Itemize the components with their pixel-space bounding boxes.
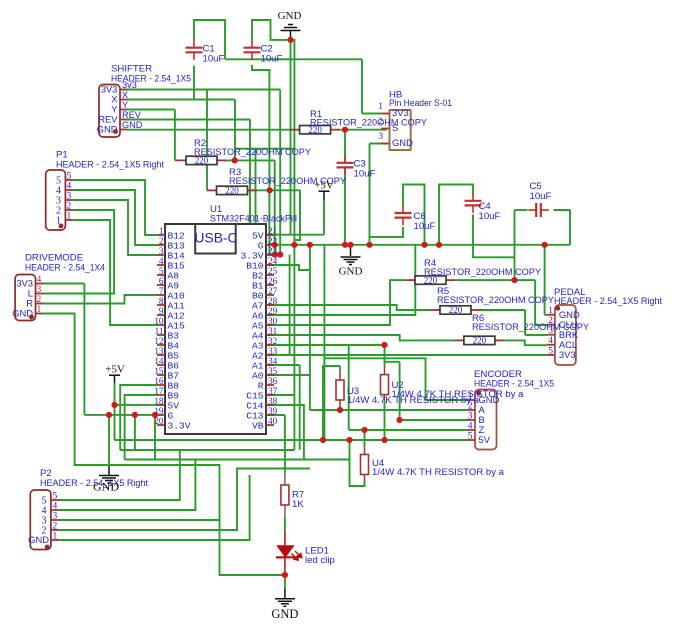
wire U2 top lead up (384, 345, 386, 365)
svg-text:25: 25 (268, 266, 278, 276)
wire G row left extension (84, 414, 157, 416)
svg-text:3V3: 3V3 (392, 107, 409, 118)
wire C3 top lead (344, 155, 346, 163)
wire P2 pin2 run (59, 469, 310, 531)
svg-text:5: 5 (548, 346, 553, 356)
wire C5 right (554, 209, 571, 211)
pedal pin 4 ACL (547, 344, 555, 346)
encoder pin 3 B (467, 419, 475, 421)
pin 5 A8 (157, 274, 165, 276)
wire C15 row (266, 394, 294, 396)
wire P1 pin1 to A15 (73, 220, 157, 325)
P2 pin 5 (51, 499, 59, 501)
wire row 450 (120, 449, 294, 451)
wire U2 column to row B (399, 362, 401, 420)
wire HB pin1 connect (362, 113, 381, 115)
svg-text:RESISTOR_220OHM COPY: RESISTOR_220OHM COPY (310, 118, 428, 129)
svg-text:4: 4 (468, 422, 473, 432)
wire C6 bottom branch (370, 227, 404, 237)
wire G to row450 (134, 415, 136, 450)
P2 pin 2 (51, 529, 59, 531)
svg-text:2: 2 (37, 295, 42, 305)
resistor U4 leads (364, 447, 366, 454)
ic U1 STM32F401-BlackPill body (165, 224, 266, 434)
svg-text:X: X (122, 90, 128, 100)
pin 30 A5 (266, 324, 274, 326)
wire X drop to R2 right (234, 100, 236, 160)
svg-text:4: 4 (159, 256, 164, 266)
svg-text:3: 3 (53, 512, 58, 522)
svg-text:7: 7 (159, 286, 164, 296)
P2 pin 4 (51, 509, 59, 511)
wire HB GND row (370, 143, 387, 145)
svg-text:35: 35 (268, 366, 278, 376)
pin 20 3.3V (157, 424, 165, 426)
wire GND mid stem (350, 245, 352, 256)
svg-text:21: 21 (268, 226, 278, 236)
wire R3 right row (253, 189, 300, 191)
wire A2 row (266, 354, 290, 356)
svg-text:26: 26 (268, 276, 278, 286)
svg-text:10uF: 10uF (354, 169, 376, 180)
wire HB pin1 drop (361, 59, 363, 113)
svg-text:37: 37 (268, 386, 278, 396)
svg-text:1: 1 (548, 306, 553, 316)
pedal pin 1 GND (547, 314, 555, 316)
wire U1 pin23 3.3V row (266, 254, 280, 256)
P1 pin 2 (65, 209, 73, 211)
wire below LED green (284, 575, 286, 589)
junction dot R4-C5 (511, 277, 517, 283)
wire C4 bottom jog (473, 215, 515, 258)
wire drivemode 3V3 (44, 283, 85, 285)
pin 1 B12 (157, 234, 165, 236)
wire GND stem top (290, 31, 292, 40)
svg-text:STM32F401-BlackPill: STM32F401-BlackPill (210, 214, 297, 225)
wire y59 run to HB pin1 column (225, 58, 362, 60)
resistor U4 body (361, 455, 369, 475)
svg-text:GND: GND (122, 120, 143, 130)
svg-text:1/4W 4.7K TH RESISTOR by a: 1/4W 4.7K TH RESISTOR by a (372, 467, 505, 478)
svg-text:10uF: 10uF (203, 54, 225, 65)
junction dot R2 right (232, 157, 238, 163)
svg-text:24: 24 (268, 256, 278, 266)
pin 28 A7 (266, 304, 274, 306)
wire net REV row (127, 119, 250, 121)
junction dot LED (282, 572, 288, 578)
wire to pedal pin3 (525, 334, 547, 336)
wire C5 left (515, 209, 528, 211)
wire R1 to HB S (341, 129, 387, 131)
pin 9 A12 (157, 314, 165, 316)
pin 17 B9 (157, 394, 165, 396)
wire drivemode GND long run to LED (44, 314, 286, 576)
wire column x255 (255, 149, 257, 255)
wire R2 right row (224, 159, 275, 161)
wire U2 top jog (385, 361, 400, 363)
svg-text:32: 32 (268, 336, 278, 346)
svg-text:19: 19 (154, 406, 164, 416)
svg-text:10uF: 10uF (530, 191, 552, 202)
svg-text:GND: GND (339, 266, 363, 278)
pin 34 A1 (266, 364, 274, 366)
encoder pin 4 Z (467, 429, 475, 431)
encoder pin 2 A (467, 409, 475, 411)
P1 pin1 marker (59, 224, 64, 229)
svg-text:3.3V: 3.3V (168, 420, 191, 431)
led LED1 (277, 546, 293, 557)
pin 14 B6 (157, 364, 165, 366)
svg-text:33: 33 (268, 346, 278, 356)
wire 3v3 drop to 3.3V (279, 90, 281, 255)
resistor U3 leads (339, 370, 341, 380)
wire A7 to R5 (266, 305, 431, 310)
connector DRIVEMODE header box (15, 275, 35, 321)
pin 40 VB (266, 424, 274, 426)
pin 35 A0 (266, 374, 274, 376)
svg-text:23: 23 (268, 246, 278, 256)
power +5V mid symbol (319, 190, 330, 192)
wire A5 to R4 (266, 280, 405, 325)
pin 31 A4 (266, 334, 274, 336)
P1 pin 3 (65, 199, 73, 201)
svg-text:4: 4 (548, 336, 553, 346)
resistor U3 body (336, 380, 344, 400)
wire U2 bottom to row D (384, 400, 386, 440)
wire row D 5V (115, 439, 467, 441)
svg-text:220: 220 (225, 186, 239, 196)
svg-text:3: 3 (67, 192, 72, 202)
wire C13 column to R7 (284, 415, 286, 473)
HB pin 3 GND (381, 143, 389, 145)
svg-text:RESISTOR_220OHM COPY: RESISTOR_220OHM COPY (472, 322, 590, 333)
wire R7 bottom gray (284, 506, 286, 517)
usb connector USB-C (195, 224, 236, 254)
svg-text:30: 30 (268, 316, 278, 326)
wire A1 row (266, 364, 300, 366)
svg-text:28: 28 (268, 296, 278, 306)
junction dots left G row (106, 412, 112, 418)
svg-text:+5V: +5V (105, 364, 125, 376)
connector ENCODER header box (475, 390, 497, 450)
wire +5V left stem (114, 375, 116, 383)
wire +5V left column to row D (114, 383, 116, 440)
pin 6 A9 (157, 284, 165, 286)
pin 13 B5 (157, 354, 165, 356)
svg-text:4: 4 (53, 502, 58, 512)
svg-text:HEADER - 2.54_1X5 Right: HEADER - 2.54_1X5 Right (56, 160, 164, 171)
P2 pin1 marker (45, 545, 50, 550)
svg-text:36: 36 (268, 376, 278, 386)
svg-text:GND: GND (278, 10, 302, 22)
wire C5 right drop to bus (569, 210, 571, 245)
wire C6 top loop (403, 185, 425, 245)
svg-text:20: 20 (154, 416, 164, 426)
pin 29 A6 (266, 314, 274, 316)
pin 32 A3 (266, 344, 274, 346)
svg-text:GND: GND (93, 480, 119, 494)
svg-text:2: 2 (67, 202, 72, 212)
wire P2 pin5 up (59, 450, 180, 500)
pin 3 B14 (157, 254, 165, 256)
svg-text:GND: GND (28, 534, 49, 545)
svg-text:USB-C: USB-C (195, 231, 238, 246)
resistor U2 leads (384, 365, 386, 375)
svg-text:5V: 5V (479, 434, 491, 445)
wire row C (349, 429, 467, 431)
drivemode pin 3 L (36, 293, 44, 295)
wire row 459 (125, 459, 350, 461)
svg-text:3V3: 3V3 (559, 349, 576, 360)
wire C2 bottom drop (252, 65, 269, 255)
resistor U2 body (381, 375, 389, 395)
svg-text:18: 18 (154, 396, 164, 406)
pedal pin 3 BRK (547, 334, 555, 336)
pin 22 G (266, 244, 274, 246)
svg-text:2: 2 (159, 236, 164, 246)
svg-text:5: 5 (53, 492, 58, 502)
wire A3 row (266, 344, 385, 346)
svg-text:RESISTOR_220OHM COPY: RESISTOR_220OHM COPY (437, 295, 555, 306)
pin 27 B0 (266, 294, 274, 296)
P2 pin 3 (51, 519, 59, 521)
wire A6 column up (266, 245, 415, 315)
HB pin 2 S (381, 128, 389, 130)
wire U1 pin21 5V row (266, 234, 324, 236)
svg-text:38: 38 (268, 396, 278, 406)
encoder pin 1 GND (467, 399, 475, 401)
wire 3V3 row to pedal pin5 (290, 354, 547, 356)
junction dot R3 right (267, 187, 273, 193)
svg-text:2: 2 (53, 522, 58, 532)
svg-text:5: 5 (159, 266, 164, 276)
wire to pedal pin2 (535, 324, 547, 326)
wire net Y row (127, 109, 175, 111)
wire column bus to encoder A row (309, 245, 311, 410)
svg-text:3: 3 (37, 285, 42, 295)
wire B10 jog (266, 265, 310, 270)
wire R4 drop to pedal pin2 (534, 280, 536, 325)
wire C5 left drop to R4 (514, 210, 516, 280)
svg-text:220: 220 (449, 305, 463, 315)
wire P1 pin2 to drivemode L (44, 210, 115, 294)
capacitor C5 (528, 203, 549, 217)
shifter pin GND (120, 129, 127, 131)
led LED1 arrows (292, 551, 302, 560)
pin 8 A11 (157, 304, 165, 306)
svg-text:10uF: 10uF (479, 211, 501, 222)
svg-text:6: 6 (159, 276, 164, 286)
pin 12 B4 (157, 344, 165, 346)
svg-text:1: 1 (37, 305, 42, 315)
resistor R2 220 (177, 156, 227, 166)
wire GND node drop A (290, 40, 292, 235)
wire U3 bottom join (339, 409, 341, 410)
wire P2 pin4 up (59, 460, 195, 511)
svg-text:4: 4 (37, 275, 42, 285)
svg-text:3: 3 (468, 412, 473, 422)
wire P1 pin4 to B13 (73, 190, 157, 245)
wire branch y149 (235, 148, 294, 150)
wire C2 top to GND node (252, 20, 296, 40)
wire row A (310, 409, 467, 411)
wire REV drop (249, 120, 251, 255)
svg-text:1: 1 (53, 532, 58, 542)
pin 15 B7 (157, 374, 165, 376)
svg-text:HEADER - 2.54_1X4: HEADER - 2.54_1X4 (25, 263, 106, 274)
wire R5 right (478, 309, 525, 311)
P1 pin 5 (65, 179, 73, 181)
svg-text:4: 4 (67, 182, 72, 192)
encoder pin1 marker (476, 391, 481, 396)
wire B8 to row 450 (120, 385, 157, 450)
P1 pin 4 (65, 189, 73, 191)
svg-text:VB: VB (252, 420, 264, 431)
wire C3 bottom to bus (344, 175, 346, 245)
wire column to row C (348, 345, 350, 430)
wire net 3v3 row (123, 89, 280, 91)
connector SHIFTER header box (99, 85, 120, 138)
wire R5 drop (524, 310, 526, 335)
svg-text:1: 1 (378, 102, 383, 112)
wire A0 row (266, 374, 310, 376)
resistor R1 220 (290, 125, 340, 135)
pin 37 C15 (266, 394, 274, 396)
svg-text:5: 5 (468, 432, 473, 442)
wire R6 to pedal pin4 (503, 340, 547, 345)
wire drivemode 3V3 drop (83, 284, 85, 415)
svg-text:1: 1 (67, 212, 72, 222)
wire encoder GND feed (324, 358, 466, 400)
svg-text:27: 27 (268, 286, 278, 296)
pin 23 3.3V (266, 254, 274, 256)
svg-text:40: 40 (268, 416, 278, 426)
resistor R7 body (281, 485, 289, 505)
wire R2 right drop (274, 160, 276, 254)
wire C1 top loop (194, 20, 225, 59)
wire P1 pin3 to B14 (73, 200, 157, 255)
drivemode pin 2 R (36, 303, 44, 305)
wire C3 bottom lead (344, 167, 346, 175)
pin 25 B2 (266, 274, 274, 276)
svg-text:31: 31 (268, 326, 278, 336)
wire C1 bottom drop (193, 66, 195, 100)
junction dot R1 node (342, 127, 348, 133)
svg-text:39: 39 (268, 406, 278, 416)
wire Y drop to R2 left (174, 110, 176, 161)
svg-text:17: 17 (154, 386, 164, 396)
drivemode pin 4 3V3 (36, 283, 44, 285)
shifter pin Y (120, 109, 127, 111)
wire U3 top loop to row D (323, 366, 340, 440)
pin 2 B13 (157, 244, 165, 246)
pin 33 A2 (266, 354, 274, 356)
svg-text:1/4W 4.7K TH RESISTOR by a: 1/4W 4.7K TH RESISTOR by a (392, 389, 525, 400)
svg-text:220: 220 (473, 336, 487, 346)
svg-text:HEADER - 2.54_1X5 Right: HEADER - 2.54_1X5 Right (554, 296, 662, 307)
wire LED anode (284, 531, 286, 546)
wire A1 column down (299, 365, 301, 450)
resistor R3 220 (207, 186, 257, 196)
resistor R4 220 (406, 275, 456, 285)
svg-text:34: 34 (268, 356, 278, 366)
wire P2 pin3 join (59, 519, 220, 521)
wire Y to R2 (175, 159, 177, 161)
pin 21 5V (266, 234, 274, 236)
svg-text:29: 29 (268, 306, 278, 316)
wire net GND row to R1 (127, 129, 290, 131)
svg-text:15: 15 (154, 366, 164, 376)
drivemode pin 1 GND (36, 313, 44, 315)
wire U4 bottom loop (350, 440, 365, 486)
pin 39 C13 (266, 414, 274, 416)
wire U3 top short (339, 366, 341, 370)
pedal pin 5 3V3 (547, 354, 555, 356)
resistor R7 leads (284, 473, 286, 485)
pin 19 G (157, 414, 165, 416)
capacitor C1 (186, 40, 203, 60)
wire column bus to row D (323, 245, 325, 440)
junction dots bottom rows (381, 342, 387, 348)
wire B9 to row 459 (125, 395, 157, 460)
svg-text:GND: GND (392, 137, 413, 148)
wire G to row459 (154, 415, 156, 460)
svg-text:3: 3 (378, 132, 383, 142)
power GND mid symbol (341, 256, 361, 258)
svg-text:HEADER - 2.54_1X5: HEADER - 2.54_1X5 (474, 379, 554, 390)
wire row B (400, 419, 467, 421)
svg-text:1: 1 (159, 226, 164, 236)
svg-text:RESISTOR_220OHM COPY: RESISTOR_220OHM COPY (194, 147, 312, 158)
svg-text:3: 3 (159, 246, 164, 256)
wire bus drop to pedal pin1 (544, 245, 546, 315)
connector P1 header box (46, 170, 66, 230)
pin 24 B10 (266, 264, 274, 266)
encoder pin 5 5V (467, 439, 475, 441)
svg-text:led clip: led clip (305, 555, 335, 566)
wire drivemode R to A10 (44, 295, 158, 304)
shifter pin REV (120, 119, 127, 121)
svg-text:1K: 1K (292, 499, 304, 510)
wire 3v3 to R3 drop (206, 90, 208, 191)
power GND top symbol (281, 25, 301, 31)
pin 4 B15 (157, 264, 165, 266)
svg-text:10uF: 10uF (414, 221, 436, 232)
pin 10 A15 (157, 324, 165, 326)
wire A4 to R6 (266, 335, 455, 340)
shifter pin1 marker (113, 129, 118, 134)
wire R3 jog to G column (294, 190, 300, 240)
drivemode pin1 marker (29, 315, 34, 320)
wire C4 top loop (439, 185, 473, 245)
svg-text:RESISTOR_220OHM COPY: RESISTOR_220OHM COPY (424, 267, 542, 278)
pin 11 B3 (157, 334, 165, 336)
connector PEDAL header box (555, 305, 576, 365)
wire C14 drop (266, 405, 304, 460)
wire P1 pin5 to B12 (73, 180, 157, 235)
pedal pin 2 CLU (547, 324, 555, 326)
svg-text:9: 9 (159, 306, 164, 316)
wire GND node column long (293, 40, 295, 450)
P1 pin 1 (65, 219, 73, 221)
wire R7 to LED green (284, 517, 286, 531)
pin 16 B8 (157, 384, 165, 386)
capacitor C6 (395, 206, 412, 226)
shifter pin 3V3 (120, 89, 127, 91)
capacitor C2 (244, 40, 261, 60)
power GND bottom symbol (275, 598, 295, 600)
pin 26 B1 (266, 284, 274, 286)
